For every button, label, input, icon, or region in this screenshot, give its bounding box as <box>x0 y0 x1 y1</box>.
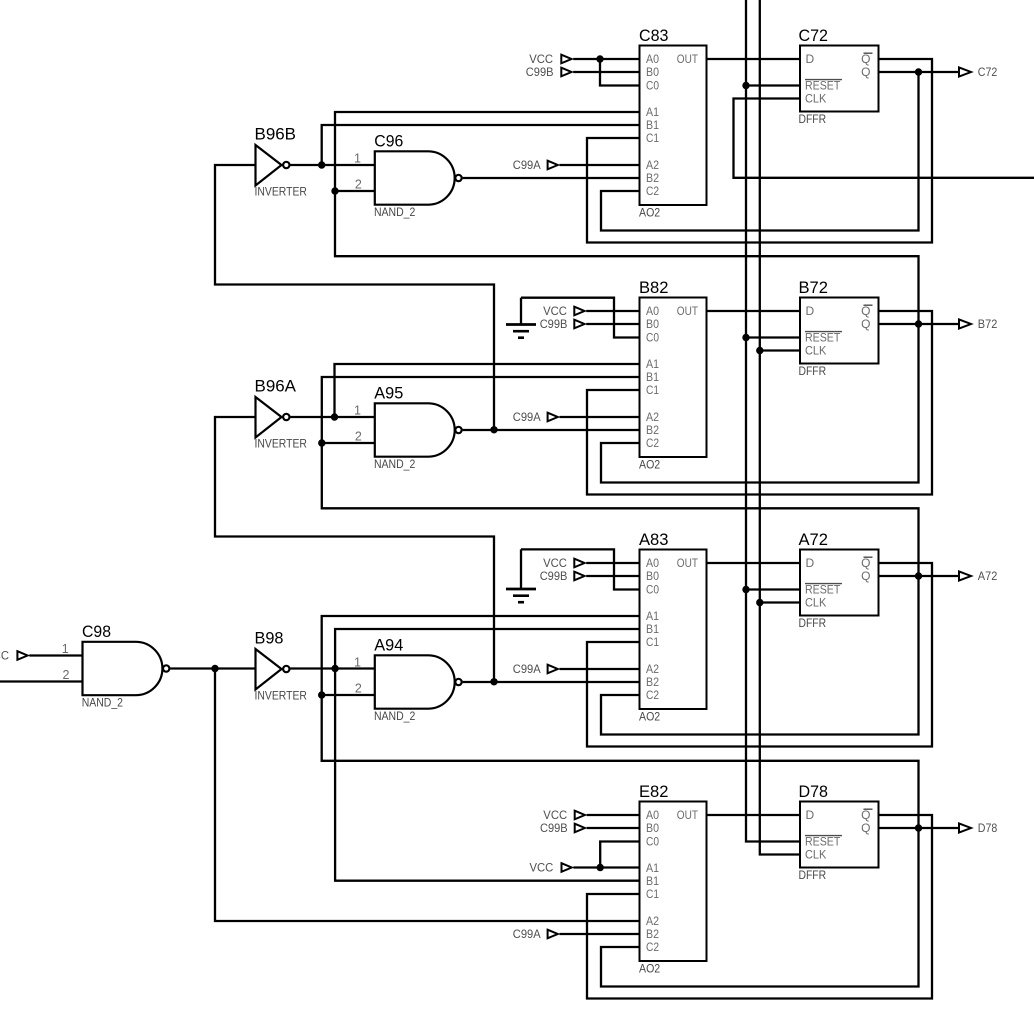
wire ground to C0 of A83 <box>521 549 640 589</box>
NAND gate A94 <box>374 635 462 723</box>
wire B82 B1 net to A72 Q and C2 of A83 <box>322 443 919 735</box>
wire A1 of C83 to C96 pin 2 <box>335 112 640 191</box>
svg-text:AO2: AO2 <box>639 710 660 724</box>
input connector C99A to A2 of B82 <box>513 410 558 424</box>
ground symbol at A83 <box>506 549 536 602</box>
D flip-flop B72 (DFFR) <box>799 278 879 378</box>
svg-text:NAND_2: NAND_2 <box>82 696 124 710</box>
svg-text:2: 2 <box>355 178 362 192</box>
wire C99B to B0 of C83 <box>573 71 639 73</box>
svg-text:C99B: C99B <box>540 317 568 331</box>
svg-text:Q: Q <box>861 569 870 583</box>
junction RESET net at C72 <box>742 82 749 89</box>
wire C99A to A2 of A83 <box>560 668 640 670</box>
wire Qbar of C72 feedback to C1 of C83 <box>587 59 932 243</box>
svg-text:C72: C72 <box>978 65 998 79</box>
svg-text:Q: Q <box>861 52 870 66</box>
wire VCC to A1 of E82 <box>573 866 639 868</box>
svg-text:A72: A72 <box>978 569 998 583</box>
svg-text:CLK: CLK <box>805 344 826 358</box>
wire RESET stub of B72 <box>746 336 800 338</box>
wire Qbar of D78 feedback to C1 of E82 <box>587 815 932 999</box>
svg-text:C72: C72 <box>799 26 829 45</box>
wire OUT of B82 to D of B72 <box>707 310 801 312</box>
wire C96 output to B2 of C83 <box>463 177 640 179</box>
svg-text:A95: A95 <box>374 383 403 402</box>
svg-text:B1: B1 <box>646 370 659 384</box>
svg-text:A1: A1 <box>646 105 659 119</box>
junction A94 pin 2 node <box>318 691 325 698</box>
svg-text:A1: A1 <box>646 357 659 371</box>
wire VCC to A0 of A83 <box>586 562 639 564</box>
svg-text:B0: B0 <box>646 65 659 79</box>
output connector C72 <box>959 65 998 79</box>
svg-text:VCC: VCC <box>543 304 567 318</box>
svg-text:Q: Q <box>861 808 870 822</box>
svg-text:A0: A0 <box>646 556 659 570</box>
svg-text:OUT: OUT <box>677 52 699 66</box>
svg-text:A0: A0 <box>646 304 659 318</box>
svg-text:CLK: CLK <box>805 848 826 862</box>
svg-text:VCC: VCC <box>0 649 9 663</box>
wire C99B to B0 of B82 <box>586 323 639 325</box>
wire B96B input from A95 output <box>215 165 494 430</box>
junction A94 output to B96A input <box>490 678 497 685</box>
svg-text:C1: C1 <box>646 887 659 901</box>
wire CLK of C72 to right edge <box>734 99 1034 178</box>
svg-text:B1: B1 <box>646 622 659 636</box>
svg-text:C2: C2 <box>646 184 659 198</box>
input connector C99A to B2 of E82 <box>513 927 558 941</box>
junction on Q of C72 <box>915 68 922 75</box>
wire OUT of E82 to D of D78 <box>707 814 801 816</box>
svg-text:OUT: OUT <box>677 556 699 570</box>
svg-text:NAND_2: NAND_2 <box>374 457 416 471</box>
svg-text:OUT: OUT <box>677 304 699 318</box>
svg-text:D: D <box>806 556 815 570</box>
svg-text:C98: C98 <box>82 622 111 641</box>
svg-text:A0: A0 <box>646 808 659 822</box>
wire B1 of C83 to B96B output node <box>322 125 640 165</box>
svg-text:C99A: C99A <box>513 158 541 172</box>
svg-text:INVERTER: INVERTER <box>255 437 308 451</box>
svg-text:A94: A94 <box>374 635 403 654</box>
wire RESET net vertical to RESET of D78 <box>746 0 800 842</box>
svg-text:C96: C96 <box>374 131 403 150</box>
svg-text:B0: B0 <box>646 569 659 583</box>
svg-text:B1: B1 <box>646 874 659 888</box>
svg-text:C99A: C99A <box>513 410 541 424</box>
svg-text:C99A: C99A <box>513 927 541 941</box>
svg-text:D: D <box>806 808 815 822</box>
wire Q of B72 to output connector <box>879 323 959 325</box>
wire Q of D78 to output connector <box>879 827 959 829</box>
svg-text:A1: A1 <box>646 861 659 875</box>
svg-text:OUT: OUT <box>677 808 699 822</box>
wire C98 output to B98 input <box>170 667 255 669</box>
svg-text:B2: B2 <box>646 675 659 689</box>
junction C98 output node <box>211 665 218 672</box>
wire B96A output to A95 pin 1 <box>290 416 375 418</box>
junction RESET net at A72 <box>742 586 749 593</box>
wire A1 of B82 to B96A output node <box>335 364 640 417</box>
wire to C98 pin 2 from left edge <box>0 680 83 682</box>
svg-text:2: 2 <box>355 430 362 444</box>
svg-text:DFFR: DFFR <box>799 112 827 126</box>
svg-text:C1: C1 <box>646 635 659 649</box>
svg-text:CLK: CLK <box>805 596 826 610</box>
wire Qbar of B72 feedback to C1 of B82 <box>587 311 932 495</box>
wire A95 output to B2 of B82 <box>463 429 640 431</box>
svg-text:1: 1 <box>354 404 361 418</box>
wire VCC to C0 of C83 <box>600 59 640 86</box>
svg-text:A2: A2 <box>646 662 659 676</box>
wire Qbar of A72 feedback to C1 of A83 <box>587 563 932 747</box>
svg-text:B2: B2 <box>646 927 659 941</box>
svg-text:RESET: RESET <box>805 79 841 93</box>
svg-text:VCC: VCC <box>543 808 567 822</box>
input connector VCC to A0 of A83 <box>543 556 584 570</box>
svg-text:C0: C0 <box>646 583 659 597</box>
svg-text:C83: C83 <box>639 26 669 45</box>
svg-text:INVERTER: INVERTER <box>255 185 308 199</box>
wire VCC to A0 of B82 <box>586 310 639 312</box>
svg-text:A2: A2 <box>646 914 659 928</box>
svg-text:AO2: AO2 <box>639 962 660 976</box>
svg-text:B0: B0 <box>646 317 659 331</box>
junction RESET net at B72 <box>742 334 749 341</box>
AO2 block E82 <box>639 782 707 976</box>
junction CLK net at A72 <box>756 599 763 606</box>
input connector VCC to A0 of C83 <box>529 52 571 66</box>
svg-text:DFFR: DFFR <box>799 868 827 882</box>
wire Q of A72 to output connector <box>879 575 959 577</box>
svg-text:C0: C0 <box>646 79 659 93</box>
svg-text:D: D <box>806 52 815 66</box>
svg-text:NAND_2: NAND_2 <box>374 205 416 219</box>
svg-text:C1: C1 <box>646 131 659 145</box>
svg-text:Q: Q <box>861 65 870 79</box>
wire C99A to A2 of B82 <box>560 416 640 418</box>
svg-text:Q: Q <box>861 304 870 318</box>
svg-text:B72: B72 <box>978 317 998 331</box>
svg-text:D78: D78 <box>978 821 998 835</box>
wire CLK stub of A72 <box>760 601 800 603</box>
AO2 block C83 <box>639 26 707 220</box>
junction VCC node C83 <box>596 55 603 62</box>
junction C96 pin 2 node <box>331 187 338 194</box>
svg-text:C0: C0 <box>646 835 659 849</box>
svg-text:VCC: VCC <box>543 556 567 570</box>
wire VCC to A0 of C83 <box>573 58 639 60</box>
svg-text:RESET: RESET <box>805 583 841 597</box>
svg-text:A83: A83 <box>639 530 669 549</box>
svg-text:C99B: C99B <box>540 821 568 835</box>
junction VCC node E82 <box>597 864 604 871</box>
input connector VCC to A0 of E82 <box>543 808 585 822</box>
wire B98 output to A94 pin 1 <box>290 667 375 669</box>
inverter B96B <box>255 125 308 199</box>
NAND gate C98 <box>82 622 170 710</box>
wire B96A input from A94 output <box>215 417 494 682</box>
input connector C99B to B0 of C83 <box>526 65 572 79</box>
svg-text:Q: Q <box>861 556 870 570</box>
wire OUT of A83 to D of A72 <box>707 562 801 564</box>
svg-text:B72: B72 <box>799 278 829 297</box>
AO2 block B82 <box>639 278 707 472</box>
junction CLK net at B72 <box>756 347 763 354</box>
D flip-flop A72 (DFFR) <box>799 530 879 630</box>
wire B96B output to C96 pin 1 <box>290 164 375 166</box>
wire A94 output to B2 of A83 <box>463 681 640 683</box>
wire CLK net vertical to CLK of D78 <box>760 0 800 855</box>
svg-text:C99A: C99A <box>513 662 541 676</box>
svg-text:2: 2 <box>63 668 70 682</box>
svg-text:B0: B0 <box>646 821 659 835</box>
svg-text:D78: D78 <box>799 782 829 801</box>
svg-text:A2: A2 <box>646 158 659 172</box>
svg-text:DFFR: DFFR <box>799 616 827 630</box>
wire RESET stub of C72 <box>746 84 800 86</box>
output connector A72 <box>959 569 998 583</box>
junction on Q of D78 <box>915 824 922 831</box>
svg-text:B2: B2 <box>646 171 659 185</box>
svg-text:B2: B2 <box>646 423 659 437</box>
junction A95 output to B96B input <box>490 426 497 433</box>
svg-text:NAND_2: NAND_2 <box>374 709 416 723</box>
svg-text:AO2: AO2 <box>639 458 660 472</box>
wire ground to C0 of B82 <box>521 298 640 338</box>
wire VCC to C98 pin 1 <box>29 654 82 656</box>
svg-text:D: D <box>806 304 815 318</box>
svg-text:B82: B82 <box>639 278 669 297</box>
wire C99B to B0 of A83 <box>586 575 639 577</box>
output connector B72 <box>959 317 998 331</box>
input connector VCC to A0 of B82 <box>543 304 584 318</box>
wire C99A to A2 of C83 <box>560 164 640 166</box>
svg-text:Q: Q <box>861 317 870 331</box>
input connector C99A to A2 of C83 <box>513 158 558 172</box>
svg-text:2: 2 <box>355 682 362 696</box>
wire VCC to A0 of E82 <box>587 814 640 816</box>
svg-text:INVERTER: INVERTER <box>255 689 308 703</box>
junction B96A output / A1 tap <box>331 413 338 420</box>
AO2 block A83 <box>639 530 707 724</box>
wire B1 of B82 to A95 pin 2 <box>322 377 640 443</box>
svg-text:AO2: AO2 <box>639 206 660 220</box>
wire CLK stub of B72 <box>760 349 800 351</box>
input connector VCC to A1 of E82 <box>530 861 572 875</box>
junction B96B output / B1 tap <box>318 161 325 168</box>
svg-text:1: 1 <box>354 152 361 166</box>
svg-text:C99B: C99B <box>540 569 568 583</box>
svg-text:C0: C0 <box>646 331 659 345</box>
wire C83 A1 net to B72 Q and C2 of B82 <box>335 191 919 483</box>
svg-text:C2: C2 <box>646 436 659 450</box>
D flip-flop C72 (DFFR) <box>799 26 879 126</box>
wire A1 of A83 to A94 pin 2 <box>322 616 640 695</box>
svg-text:E82: E82 <box>639 782 669 801</box>
svg-text:B1: B1 <box>646 118 659 132</box>
input connector C99B to B0 of E82 <box>540 821 585 835</box>
inverter B98 <box>255 629 308 703</box>
inverter B96A <box>255 377 308 451</box>
input connector VCC to C98 pin 1 <box>0 649 28 663</box>
svg-text:B96B: B96B <box>255 125 297 144</box>
input connector C99B to B0 of B82 <box>540 317 585 331</box>
wire VCC to C0 of E82 <box>600 842 639 868</box>
NAND gate A95 <box>374 383 462 471</box>
svg-text:B98: B98 <box>255 629 284 648</box>
ground symbol at B82 <box>506 298 536 338</box>
D flip-flop D78 (DFFR) <box>799 782 879 882</box>
svg-text:Q: Q <box>861 821 870 835</box>
svg-text:A0: A0 <box>646 52 659 66</box>
wire RESET stub of A72 <box>746 588 800 590</box>
junction on Q of B72 <box>915 320 922 327</box>
svg-text:B96A: B96A <box>255 377 297 396</box>
svg-text:C2: C2 <box>646 940 659 954</box>
input connector C99B to B0 of A83 <box>540 569 585 583</box>
junction on Q of A72 <box>915 572 922 579</box>
svg-text:DFFR: DFFR <box>799 364 827 378</box>
wire B1 of A83 / B98 output to B1 of E82 <box>335 629 639 881</box>
svg-text:A72: A72 <box>799 530 829 549</box>
svg-text:CLK: CLK <box>805 92 826 106</box>
junction A95 pin 2 node <box>318 439 325 446</box>
svg-text:C1: C1 <box>646 383 659 397</box>
svg-text:1: 1 <box>62 642 69 656</box>
output connector D78 <box>959 821 998 835</box>
svg-text:A2: A2 <box>646 410 659 424</box>
wire Q of C72 to output connector <box>879 71 959 73</box>
wire OUT of C83 to D of C72 <box>707 58 801 60</box>
svg-text:C2: C2 <box>646 688 659 702</box>
NAND gate C96 <box>374 131 462 219</box>
wire Q of C72 feedback to C2 of C83 <box>601 72 919 231</box>
svg-text:VCC: VCC <box>530 861 554 875</box>
wire C99B to B0 of E82 <box>587 827 640 829</box>
svg-text:C99B: C99B <box>526 65 554 79</box>
svg-text:RESET: RESET <box>805 835 841 849</box>
wire A83 A1 net to D78 Q and C2 of E82 <box>322 695 919 987</box>
svg-text:VCC: VCC <box>529 52 553 66</box>
wire C99A to B2 of E82 <box>560 933 640 935</box>
svg-text:RESET: RESET <box>805 331 841 345</box>
junction B98 output / B1 tap <box>331 665 338 672</box>
wire C98 output to A2 of E82 <box>215 669 640 922</box>
svg-text:A1: A1 <box>646 609 659 623</box>
input connector C99A to A2 of A83 <box>513 662 558 676</box>
